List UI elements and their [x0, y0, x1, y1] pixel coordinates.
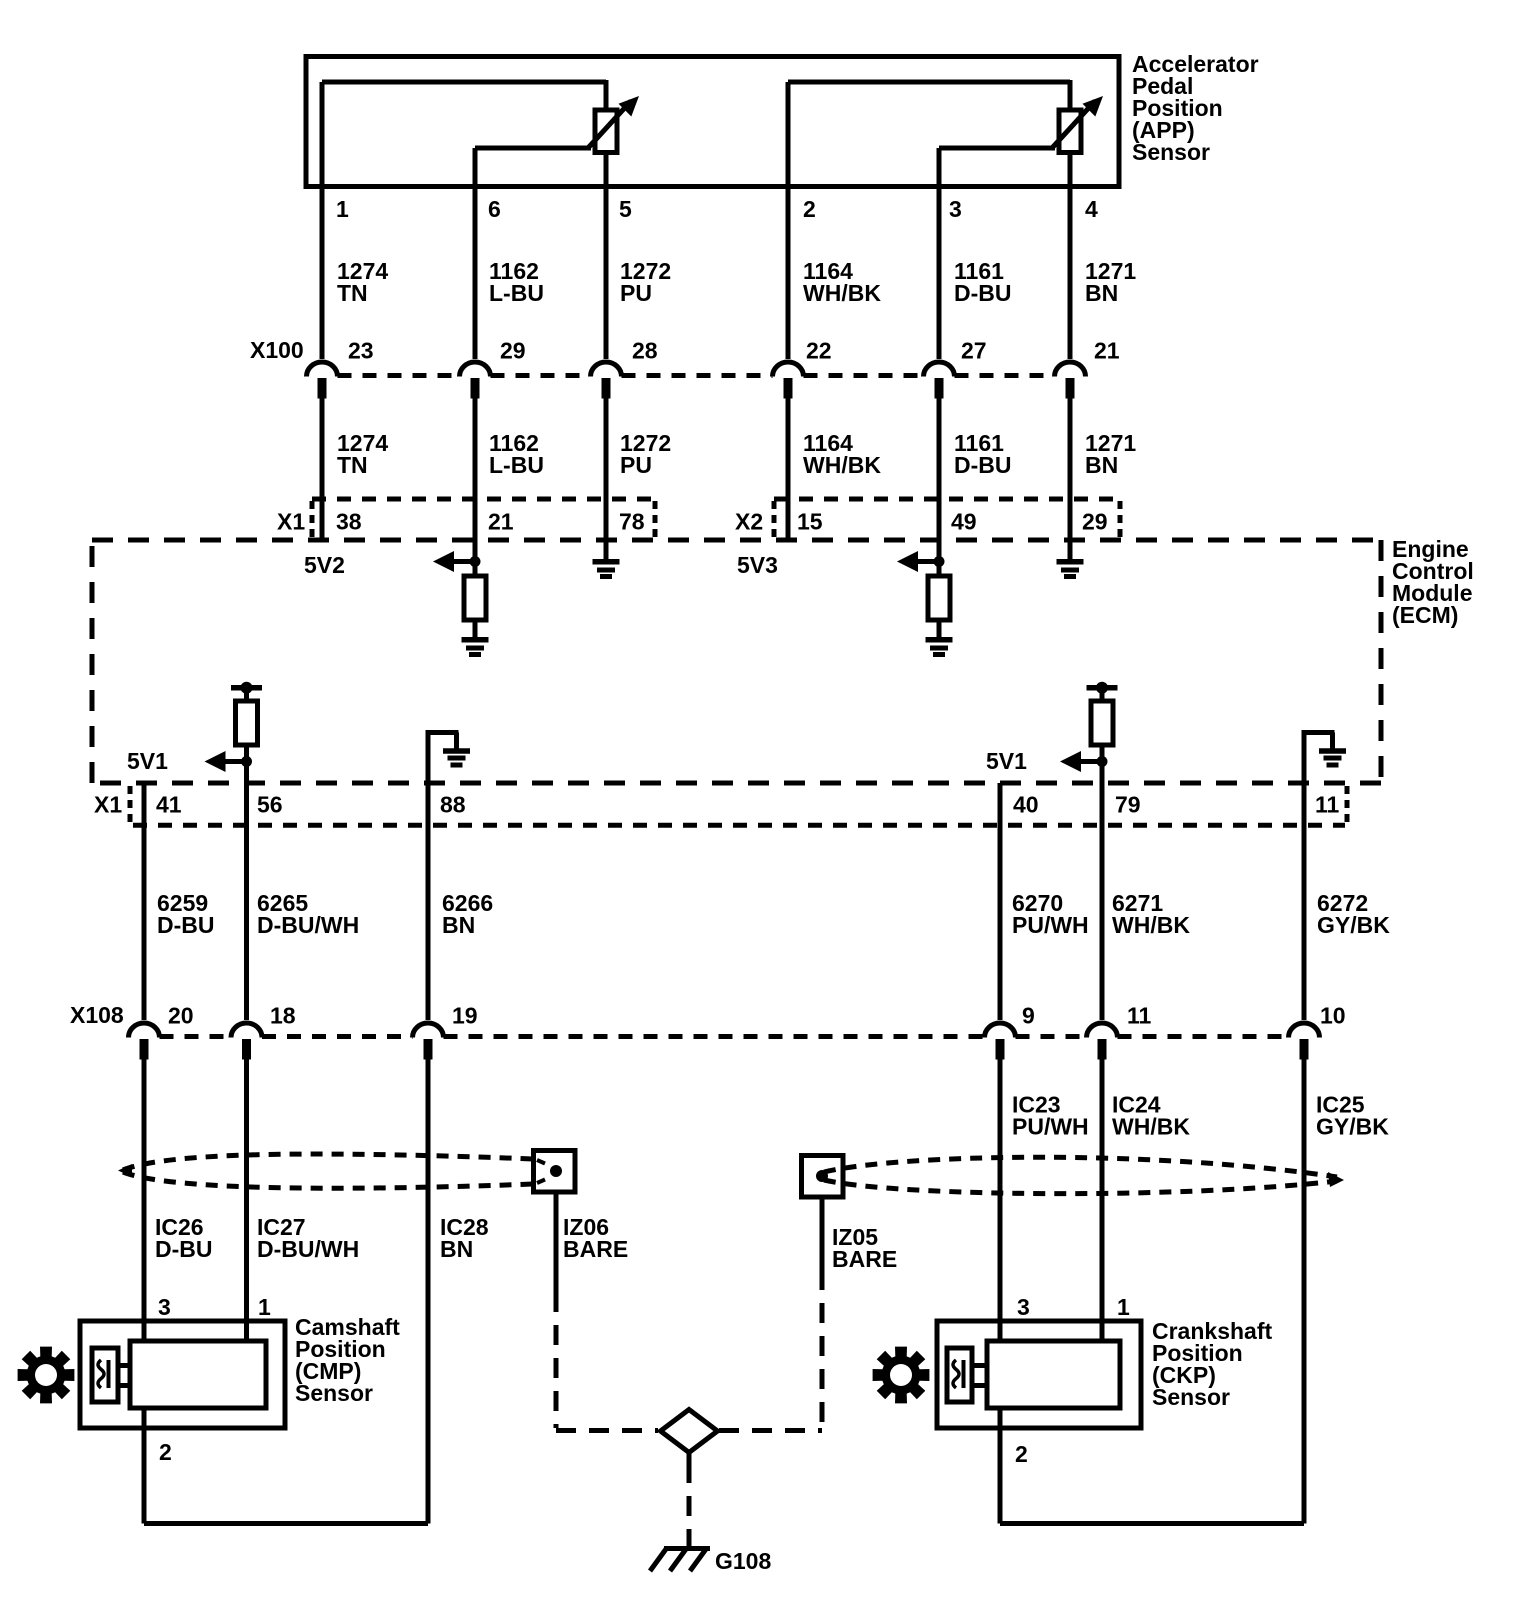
- wire APP pin 3: [937, 148, 942, 359]
- svg-text:Sensor: Sensor: [1132, 139, 1210, 165]
- X1 bottom separator left: [128, 786, 133, 822]
- svg-text:2: 2: [803, 196, 816, 222]
- svg-text:3: 3: [158, 1294, 171, 1320]
- wire pin2 to top rail: [788, 80, 1070, 85]
- wire APP pin 4: [1068, 152, 1073, 359]
- wire IC24 WH/BK: [1100, 1058, 1105, 1341]
- svg-text:2: 2: [159, 1439, 172, 1465]
- wire 1162 L-BU to X1-21: [473, 396, 478, 576]
- svg-text:88: 88: [440, 791, 466, 817]
- svg-text:1: 1: [336, 196, 349, 222]
- X108 terminal 19: [413, 1023, 444, 1037]
- wire 1272 PU to X1-78: [604, 396, 609, 560]
- svg-text:40: 40: [1013, 791, 1039, 817]
- svg-text:X1: X1: [277, 508, 305, 534]
- CKP element: [987, 1341, 1120, 1408]
- svg-text:D-BU: D-BU: [155, 1236, 213, 1262]
- svg-text:19: 19: [452, 1002, 478, 1028]
- connector separator x=774: [772, 501, 777, 537]
- svg-text:GY/BK: GY/BK: [1317, 912, 1390, 938]
- svg-text:18: 18: [270, 1002, 296, 1028]
- svg-text:4: 4: [1085, 196, 1098, 222]
- svg-text:Sensor: Sensor: [295, 1380, 373, 1406]
- svg-text:41: 41: [156, 791, 182, 817]
- svg-text:GY/BK: GY/BK: [1316, 1113, 1389, 1139]
- svg-text:11: 11: [1315, 791, 1340, 817]
- svg-text:23: 23: [348, 337, 374, 363]
- ground G108: [664, 1546, 710, 1551]
- svg-text:22: 22: [806, 337, 832, 363]
- svg-text:X108: X108: [70, 1002, 124, 1028]
- svg-text:PU/WH: PU/WH: [1012, 912, 1089, 938]
- svg-text:TN: TN: [337, 452, 368, 478]
- ground ECM pin 88: [426, 730, 459, 735]
- accelerator pedal position sensor box: [306, 57, 1119, 187]
- X108 terminal 11: [1087, 1023, 1118, 1037]
- X100 terminal 21: [1055, 362, 1086, 377]
- svg-text:11: 11: [1127, 1002, 1152, 1028]
- svg-text:Sensor: Sensor: [1152, 1384, 1230, 1410]
- wire pin1 to top rail: [322, 80, 606, 85]
- wire 1271 BN to X2-29: [1068, 396, 1073, 560]
- svg-text:5V1: 5V1: [986, 748, 1027, 774]
- svg-text:5V3: 5V3: [737, 552, 778, 578]
- svg-text:PU: PU: [620, 452, 652, 478]
- svg-text:28: 28: [632, 337, 658, 363]
- svg-text:38: 38: [336, 508, 362, 534]
- svg-text:BN: BN: [440, 1236, 473, 1262]
- wire IC27 D-BU/WH: [244, 1058, 249, 1341]
- X100 terminal 28: [591, 362, 622, 377]
- svg-text:X1: X1: [94, 791, 122, 817]
- svg-text:10: 10: [1320, 1002, 1346, 1028]
- X1 bottom separator right: [1345, 786, 1350, 822]
- wire APP pin 6: [473, 148, 478, 359]
- CMP reluctor gear: [18, 1347, 75, 1404]
- X100 terminal 29: [460, 362, 491, 377]
- svg-text:BARE: BARE: [832, 1246, 897, 1272]
- svg-text:L-BU: L-BU: [489, 280, 544, 306]
- wire IC26 D-BU: [142, 1058, 147, 1341]
- CMP pickup box: [92, 1348, 118, 1402]
- splice: [661, 1410, 718, 1453]
- wire IC23 PU/WH: [998, 1058, 1003, 1341]
- svg-text:5: 5: [619, 196, 632, 222]
- connector X108 dashed line: [160, 1034, 232, 1039]
- svg-text:1: 1: [258, 1294, 271, 1320]
- CKP pickup stubs: [972, 1363, 987, 1368]
- crankshaft position sensor box: [937, 1321, 1141, 1428]
- 5V1 pull-up resistor at x=1102: [1087, 685, 1118, 691]
- connector X1 bottom line: [133, 823, 1345, 828]
- shield ellipse CMP wires: [123, 1154, 534, 1170]
- svg-text:56: 56: [257, 791, 283, 817]
- svg-text:6: 6: [488, 196, 501, 222]
- connector X1 line: [312, 497, 655, 502]
- svg-text:PU: PU: [620, 280, 652, 306]
- svg-text:D-BU/WH: D-BU/WH: [257, 912, 359, 938]
- camshaft position sensor box: [80, 1321, 285, 1428]
- connector X100 dashed line: [338, 373, 460, 378]
- svg-text:D-BU/WH: D-BU/WH: [257, 1236, 359, 1262]
- wire APP pin 5: [604, 152, 609, 359]
- wire 1274 TN to X1-38: [320, 396, 325, 540]
- wire IC25 GY/BK: [1302, 1058, 1307, 1524]
- CKP reluctor gear: [873, 1347, 930, 1404]
- X108 terminal 10: [1289, 1023, 1320, 1037]
- potentiometer APP2: [1059, 110, 1081, 153]
- X108 terminal 18: [231, 1023, 262, 1037]
- wire ECM pin 56: [244, 762, 249, 1020]
- wire APP pin 2: [786, 82, 791, 359]
- connector X2 line: [774, 497, 1120, 502]
- svg-text:X2: X2: [735, 508, 763, 534]
- svg-text:D-BU: D-BU: [954, 280, 1012, 306]
- svg-text:WH/BK: WH/BK: [1112, 912, 1190, 938]
- 5V1 pull-up resistor at x=246.5: [231, 685, 262, 691]
- svg-text:27: 27: [961, 337, 987, 363]
- wire ECM pin 40: [998, 783, 1003, 1020]
- CKP pickup box: [947, 1348, 972, 1402]
- svg-text:BN: BN: [1085, 280, 1118, 306]
- svg-text:5V1: 5V1: [127, 748, 168, 774]
- svg-text:21: 21: [1094, 337, 1120, 363]
- svg-text:3: 3: [949, 196, 962, 222]
- svg-text:(ECM): (ECM): [1392, 602, 1458, 628]
- ground ECM pin 78: [593, 559, 620, 565]
- wire pin3 wiper: [939, 146, 1055, 151]
- X108 terminal 9: [985, 1023, 1016, 1037]
- engine control module box: [92, 538, 1381, 543]
- X100 terminal 27: [923, 362, 954, 377]
- X100 terminal 23: [307, 362, 338, 377]
- shield ellipse CKP wires: [824, 1157, 1337, 1177]
- internal resistor to ground at x=475: [433, 551, 454, 572]
- wire IZ06 BARE: [554, 1192, 559, 1292]
- svg-text:L-BU: L-BU: [489, 452, 544, 478]
- svg-text:BN: BN: [1085, 452, 1118, 478]
- svg-text:15: 15: [797, 508, 823, 534]
- svg-text:WH/BK: WH/BK: [1112, 1113, 1190, 1139]
- svg-text:78: 78: [619, 508, 645, 534]
- svg-text:3: 3: [1017, 1294, 1030, 1320]
- svg-text:D-BU: D-BU: [157, 912, 215, 938]
- ground ECM pin 11: [1302, 730, 1335, 735]
- svg-text:TN: TN: [337, 280, 368, 306]
- svg-text:20: 20: [168, 1002, 194, 1028]
- internal resistor to ground at x=939: [897, 551, 918, 572]
- CMP element: [130, 1341, 266, 1408]
- svg-text:21: 21: [488, 508, 514, 534]
- wire IC28 BN: [426, 1058, 431, 1524]
- shield termination IZ05: [802, 1156, 844, 1198]
- wire ECM pin 79: [1100, 762, 1105, 1020]
- connector separator x=655: [653, 501, 658, 537]
- svg-text:29: 29: [500, 337, 526, 363]
- wire ECM pin 41: [142, 783, 147, 1020]
- wire CKP pin2 loop: [998, 1408, 1003, 1524]
- svg-text:WH/BK: WH/BK: [803, 452, 881, 478]
- potentiometer APP1: [595, 110, 617, 153]
- svg-text:1: 1: [1117, 1294, 1130, 1320]
- CMP pickup stubs: [118, 1363, 130, 1368]
- svg-text:9: 9: [1022, 1002, 1035, 1028]
- wire APP pin 1: [320, 82, 325, 359]
- svg-text:PU/WH: PU/WH: [1012, 1113, 1089, 1139]
- svg-text:5V2: 5V2: [304, 552, 345, 578]
- wire CMP pin2 loop: [142, 1408, 147, 1524]
- svg-text:29: 29: [1082, 508, 1108, 534]
- ground ECM pin 29: [1057, 559, 1084, 565]
- svg-text:X100: X100: [250, 337, 304, 363]
- connector separator x=1120: [1118, 501, 1123, 537]
- wire splice to G108: [687, 1453, 692, 1463]
- X100 terminal 22: [772, 362, 803, 377]
- shield termination IZ06: [534, 1151, 576, 1193]
- svg-text:BARE: BARE: [563, 1236, 628, 1262]
- X108 terminal 20: [129, 1023, 160, 1037]
- svg-text:WH/BK: WH/BK: [803, 280, 881, 306]
- wire IZ05 BARE: [820, 1197, 825, 1270]
- wire 1161 D-BU to X2-49: [937, 396, 942, 576]
- svg-text:49: 49: [951, 508, 977, 534]
- svg-text:D-BU: D-BU: [954, 452, 1012, 478]
- connector separator x=312: [310, 501, 315, 537]
- svg-text:79: 79: [1115, 791, 1141, 817]
- wire pin6 wiper: [475, 146, 591, 151]
- wire 1164 WH/BK to X2-15: [786, 396, 791, 540]
- svg-text:2: 2: [1015, 1441, 1028, 1467]
- svg-text:BN: BN: [442, 912, 475, 938]
- svg-text:G108: G108: [715, 1548, 771, 1574]
